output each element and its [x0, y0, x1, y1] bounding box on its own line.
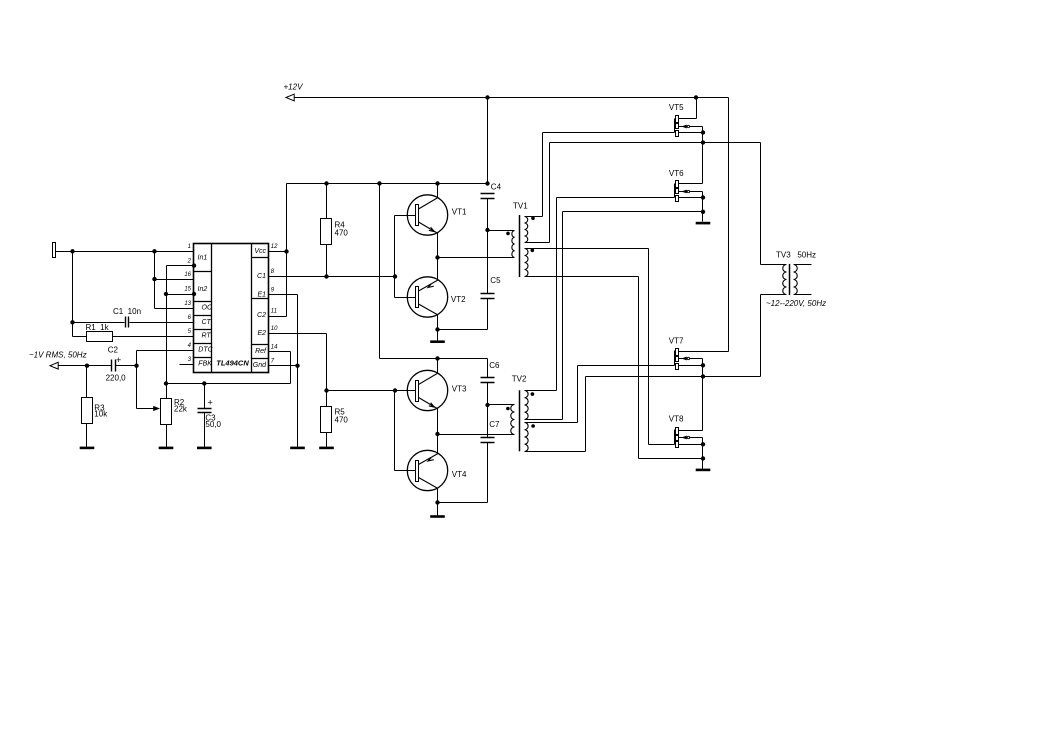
svg-text:VT8: VT8: [669, 415, 684, 424]
svg-text:C1: C1: [257, 273, 266, 280]
svg-text:50,0: 50,0: [205, 420, 221, 429]
svg-text:TV2: TV2: [512, 375, 527, 384]
svg-text:VT7: VT7: [669, 337, 684, 346]
svg-text:11: 11: [271, 309, 277, 315]
svg-text:22k: 22k: [174, 404, 188, 413]
svg-text:CT: CT: [202, 319, 212, 326]
svg-text:15: 15: [184, 287, 191, 293]
svg-text:In1: In1: [198, 255, 208, 262]
svg-text:+: +: [116, 355, 121, 365]
svg-text:VT5: VT5: [669, 103, 684, 112]
svg-text:Gnd: Gnd: [253, 362, 267, 369]
svg-text:R1 1k: R1 1k: [86, 323, 110, 332]
svg-text:+: +: [208, 397, 213, 407]
svg-text:DTC: DTC: [198, 347, 213, 354]
svg-text:16: 16: [184, 272, 191, 278]
svg-text:10k: 10k: [94, 410, 108, 419]
svg-text:470: 470: [335, 416, 349, 425]
svg-text:VT6: VT6: [669, 169, 684, 178]
svg-text:12: 12: [271, 244, 278, 250]
svg-text:E1: E1: [257, 291, 266, 298]
svg-text:~12--220V, 50Hz: ~12--220V, 50Hz: [766, 299, 826, 308]
svg-text:C2: C2: [257, 312, 266, 319]
svg-text:OC: OC: [202, 305, 213, 312]
svg-text:10: 10: [271, 326, 278, 332]
svg-text:TL494CN: TL494CN: [216, 358, 249, 367]
svg-text:VT1: VT1: [452, 208, 467, 217]
svg-text:C5: C5: [490, 276, 501, 285]
svg-text:C2: C2: [108, 345, 119, 354]
svg-text:VT2: VT2: [451, 295, 466, 304]
svg-text:220,0: 220,0: [106, 373, 127, 382]
svg-text:13: 13: [184, 301, 191, 307]
svg-text:VT3: VT3: [452, 385, 467, 394]
svg-text:RT: RT: [202, 333, 212, 340]
svg-text:470: 470: [335, 229, 349, 238]
svg-text:C6: C6: [489, 361, 500, 370]
svg-text:~1V RMS, 50Hz: ~1V RMS, 50Hz: [29, 351, 87, 360]
svg-text:2: 2: [187, 258, 192, 264]
svg-text:VT4: VT4: [452, 470, 467, 479]
svg-text:+12V: +12V: [284, 83, 304, 92]
svg-text:E2: E2: [257, 330, 266, 337]
svg-text:TV3 50Hz: TV3 50Hz: [776, 251, 816, 260]
svg-text:TV1: TV1: [513, 202, 528, 211]
svg-text:FBK: FBK: [198, 361, 212, 368]
svg-text:C7: C7: [489, 420, 500, 429]
svg-text:C4: C4: [491, 182, 502, 191]
svg-text:14: 14: [271, 345, 278, 351]
svg-text:Vcc: Vcc: [254, 248, 266, 255]
svg-text:In2: In2: [198, 286, 208, 293]
svg-text:C1 10n: C1 10n: [113, 307, 141, 316]
svg-text:Ref: Ref: [255, 348, 267, 355]
svg-text:1: 1: [188, 244, 191, 250]
